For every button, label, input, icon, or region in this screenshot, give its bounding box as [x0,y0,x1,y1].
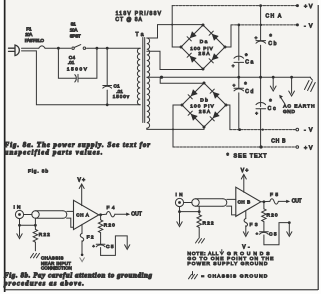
svg-text:100 PIV: 100 PIV [190,104,214,110]
svg-text:CH A: CH A [266,14,282,20]
svg-text:1500v: 1500v [113,94,130,99]
svg-text:SPST: SPST [70,34,81,39]
op-amp CH B [236,187,261,216]
svg-text:.01: .01 [68,60,75,65]
wire Db right vertex to -V rail [226,105,230,130]
wire secondary tap1 to Da top [147,25,203,38]
svg-text:IN: IN [14,205,22,211]
wire Da right vertex to -V rail [225,25,231,47]
node CT [160,76,163,79]
svg-text:GND: GND [283,109,295,115]
ground below jack [179,207,181,225]
wire mid to Db top [160,77,204,83]
capacitor C1 [106,48,108,85]
AC plug P1 [9,45,20,56]
svg-text:+V: +V [304,4,313,10]
svg-text:V+: V+ [78,178,86,184]
wire secondary tap2 to Da bottom [147,51,203,69]
diode Db3 bottom-left [191,114,198,121]
svg-text:R22: R22 [203,221,214,227]
svg-text:R22: R22 [39,232,50,238]
output node [99,213,107,216]
svg-text:25A: 25A [199,109,211,115]
svg-text:+: + [233,83,236,88]
svg-text:OUT: OUT [131,211,142,217]
switch S1 [72,47,74,49]
wire -V rail CH A [231,24,296,26]
cable shield [32,211,39,218]
ground arrow 2 [291,77,293,93]
svg-text:Db: Db [200,98,208,104]
svg-text:procedures as above.: procedures as above. [3,280,84,288]
svg-text:F2: F2 [87,235,94,241]
svg-text:-V: -V [304,23,313,29]
svg-text:Da: Da [200,39,208,45]
capacitor Cc [260,77,262,106]
op-amp CH A [74,200,99,229]
svg-text:R20: R20 [104,223,115,229]
chassis ground legend [189,272,198,279]
capacitor C5 [96,243,105,245]
svg-text:CHASSIS: CHASSIS [41,256,63,261]
ground arrow 1 [272,77,274,88]
diode Da2 top-right [212,34,219,41]
svg-text:C1: C1 [114,83,121,88]
chassis ground at rail end [310,77,313,80]
diode Da4 bottom-right [212,53,219,60]
svg-text:Fig. 8b: Fig. 8b [28,168,48,174]
output node [261,200,270,202]
svg-text:OUT: OUT [292,199,302,205]
node C4 right [96,47,99,50]
diode Da1 top-left [190,31,197,38]
svg-text:.01: .01 [116,89,123,94]
node C4 left [57,47,60,50]
wire switch to transformer [87,47,141,49]
ground loop CH A [100,248,102,256]
wire secondary bottom to Db bottom [147,127,204,129]
wire fuse to node [45,47,71,49]
wire shield to op-amp input [67,210,74,212]
chassis ground near input [31,253,40,257]
ground loop CH B [263,235,265,245]
wire +V rail CH B [173,146,296,148]
capacitor C4 [58,48,75,78]
resistor R20 [100,215,102,220]
svg-text:V+: V+ [241,168,249,174]
wire jack gnd to R22 [20,224,36,226]
svg-text:+: + [232,64,235,69]
node C1 top [106,47,109,50]
fuse F3 [245,211,247,219]
diode Db1 top-left [191,89,198,96]
diode Da3 bottom-left [190,56,197,63]
resistor R22 [198,206,200,214]
svg-text:10A: 10A [70,28,79,33]
resistor R22 [34,218,36,229]
svg-text:Fig. 8b. Pay careful attention: Fig. 8b. Pay careful attention to ground… [4,272,153,280]
svg-text:CONNECTION: CONNECTION [41,266,72,271]
capacitor Cb [260,6,262,41]
wire jack to shield [184,202,192,204]
wire to OUT [278,200,286,202]
node crossover blobs [171,24,173,26]
wire plug to fuse [22,47,39,49]
svg-text:S1: S1 [71,21,77,26]
fuse F1 [39,46,45,48]
svg-text:CH B: CH B [271,138,286,144]
wire +V rail CH A [172,5,296,7]
svg-text:+: + [255,111,258,116]
resistor R20 [263,202,265,209]
svg-text:10A: 10A [25,32,33,37]
fuse F5 [270,199,279,204]
cable shield [192,199,199,206]
wire Db left vertex to +V rail [173,105,182,147]
fuse F2 [81,224,83,233]
rectifier bridge Da [181,25,225,69]
wire shield to op-amp input [227,198,236,200]
wire plug lower to transformer [22,51,141,105]
svg-text:C5: C5 [269,232,277,238]
svg-text:= CHASSIS GROUND: = CHASSIS GROUND [201,274,267,280]
wire Da left vertex to +V rail [172,6,181,47]
capacitor Ca [238,25,240,60]
rectifier bridge Db [182,83,226,127]
svg-text:CT @ 8A: CT @ 8A [115,17,142,23]
svg-text:unspecified parts values.: unspecified parts values. [5,149,103,157]
nodes mid rail [237,76,240,79]
wire jack to shield [24,214,32,216]
svg-text:FAST-BLO: FAST-BLO [25,38,45,43]
capacitor Cd [238,77,240,88]
svg-text:SEE TEXT: SEE TEXT [234,153,268,159]
svg-text:POWER SUPPLY GROUND: POWER SUPPLY GROUND [187,261,267,267]
svg-text:C5: C5 [106,244,114,250]
ground below jack [19,219,21,237]
svg-text:CH B: CH B [238,199,251,204]
svg-text:R20: R20 [267,213,278,219]
capacitor C5 (CH B) [260,231,269,233]
pointer arrow AC earth [280,97,285,104]
wire to OUT [115,213,126,215]
svg-text:CH A: CH A [76,212,89,217]
transformer Ta primary [137,48,140,105]
wire -V rail CH B [230,129,296,131]
node C1 bottom [106,103,109,106]
wire center tap mid rail [147,76,311,78]
transformer Ta secondary [147,38,150,128]
wire jack gnd to R22 [180,211,200,213]
diode Db2 top-right [213,92,220,99]
svg-text:IN: IN [176,192,183,197]
transformer Ta core [142,38,144,123]
svg-text:-V: -V [304,128,313,134]
svg-text:GO TO ONE POINT ON THE: GO TO ONE POINT ON THE [187,256,274,262]
diode Db4 bottom-right [213,111,220,118]
fuse F4 [106,212,115,217]
svg-text:F1: F1 [26,26,32,31]
svg-text:+V: +V [304,145,313,151]
svg-text:AC EARTH: AC EARTH [283,104,315,110]
svg-text:+: + [255,35,258,40]
svg-text:25A: 25A [198,51,210,57]
chassis ground [196,239,205,243]
